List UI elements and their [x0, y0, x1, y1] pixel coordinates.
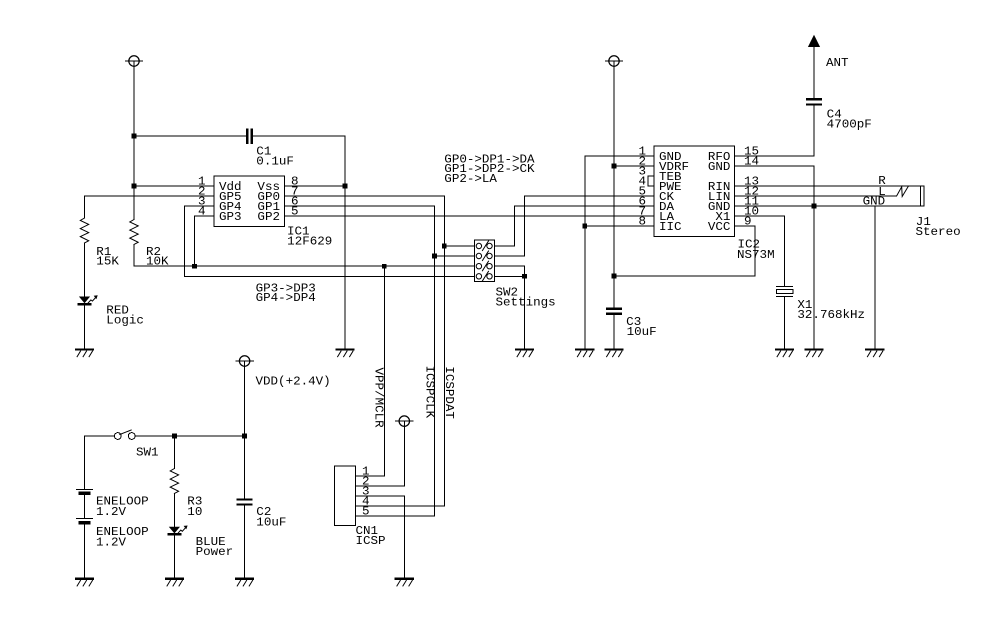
svg-text:VPP/MCLR: VPP/MCLR	[372, 368, 386, 428]
crystal X1	[777, 285, 793, 287]
junction VDD / VCC return	[612, 274, 617, 279]
wire IC2 pin8 IIC	[585, 225, 654, 227]
svg-text:GP3: GP3	[219, 210, 242, 224]
wire CN1 pin5 ICSPCLK	[355, 515, 434, 517]
wire IC2 pin4 PWE stub	[648, 185, 654, 187]
wire SW1 to VDD rail	[135, 435, 245, 437]
switch SW2 contacts	[476, 243, 481, 248]
wire IC1 pin1 Vdd	[134, 185, 214, 187]
power symbol VDD (+2.4V)	[239, 356, 249, 366]
wire IC2 pin12 LIN / L line	[735, 195, 897, 197]
wire jack sleeve to ground	[874, 206, 876, 350]
svg-text:15K: 15K	[96, 255, 119, 269]
LED D2 BLUE	[169, 527, 180, 534]
wire CN1 pin2 to VDD	[355, 421, 404, 486]
resistor R2	[130, 220, 138, 245]
wire GP4 row to SW2	[185, 275, 475, 277]
svg-text:ANT: ANT	[826, 56, 849, 70]
svg-text:GP4->DP4: GP4->DP4	[256, 291, 316, 305]
wire C1 right segment to Vss	[252, 136, 345, 186]
junction VDD / VDRF	[612, 164, 617, 169]
wire R1 top lead	[84, 196, 86, 218]
svg-text:Settings: Settings	[496, 295, 556, 309]
wire VDD down to C2	[244, 361, 246, 499]
op-amp IC1 box (12F629)	[214, 176, 285, 227]
ground (R1/LED chain)	[76, 348, 93, 350]
svg-text:GP2: GP2	[257, 210, 280, 224]
battery BT2 ENELOOP cell2	[77, 518, 93, 520]
svg-text:GND: GND	[708, 160, 731, 174]
svg-text:GP2->LA: GP2->LA	[444, 172, 498, 186]
wire battery cells link	[84, 493, 86, 518]
svg-text:32.768kHz: 32.768kHz	[797, 308, 865, 322]
wire IC1 pin6 GP1 / ICSPCLK	[285, 206, 435, 516]
wire IC2 pin10 X1	[735, 216, 785, 286]
wire IC2 pin3 TEB tie to PWE	[648, 176, 654, 186]
wire CN1 pin1 VPP/MCLR	[355, 266, 384, 476]
wire SW2 row4 right	[495, 275, 525, 277]
wire IC2 pin9 VCC loop	[614, 226, 755, 276]
wire battery to ground	[84, 523, 86, 579]
wire C2 to ground	[244, 505, 246, 579]
junction GP3 row / pin4 drop	[192, 264, 197, 269]
wire SW2 row2 left	[435, 255, 475, 257]
wire R1 to LED	[84, 243, 86, 297]
svg-text:0.1uF: 0.1uF	[256, 154, 294, 168]
wire IC1 pin4 GP3 down	[195, 216, 215, 266]
wire IC2 pin13 RIN / R line	[735, 185, 921, 187]
svg-text:GND: GND	[863, 195, 886, 209]
wire X1 to ground	[784, 296, 786, 349]
wire SW2 row1 left	[444, 245, 474, 247]
antenna ANT	[808, 35, 820, 47]
svg-text:VCC: VCC	[708, 220, 731, 234]
wire CN1 pin4 ICSPDAT	[355, 505, 444, 507]
wire R2 bottom / GP3 row	[134, 245, 474, 267]
wire IC2 pin1 GND left	[585, 156, 654, 350]
junction ICSPDAT / SW2 row1	[442, 244, 447, 249]
svg-text:1.2V: 1.2V	[96, 535, 126, 549]
svg-text:Power: Power	[196, 545, 234, 559]
svg-text:Logic: Logic	[106, 313, 144, 327]
svg-text:SW1: SW1	[136, 446, 159, 460]
wire C3 to ground	[613, 314, 615, 350]
ground (X1)	[776, 348, 793, 350]
ground (C3)	[606, 348, 623, 350]
junction VDD / SW1 rail	[242, 434, 247, 439]
svg-text:10uF: 10uF	[256, 515, 286, 529]
power symbol VDD (top left)	[129, 56, 139, 66]
ground (IC2 GND/IIC)	[576, 348, 593, 350]
junction VDD / C1	[132, 134, 137, 139]
junction SW1 rail / R3	[172, 434, 177, 439]
wire IC1 pin8 Vss	[285, 185, 346, 187]
ground (battery)	[76, 578, 93, 580]
wire VDD rail down to R2	[133, 61, 135, 220]
capacitor C1	[246, 130, 248, 144]
wire IC2 pin11 GND / jack sleeve	[735, 205, 921, 207]
resistor R1	[80, 218, 88, 243]
wire Vss down to ground	[344, 186, 346, 350]
svg-text:12F629: 12F629	[287, 235, 332, 249]
svg-text:10uF: 10uF	[627, 325, 657, 339]
ground (jack sleeve)	[866, 348, 883, 350]
wire IC1 pin2 GP5 to R1	[85, 195, 215, 197]
battery BT1 ENELOOP cell1	[77, 488, 93, 490]
wire CN1 pin3 to ground	[355, 496, 404, 579]
connector J1 plug body	[920, 186, 924, 206]
wire SW2 row2 right to IC2 CK	[495, 196, 654, 256]
ground (C2)	[236, 578, 253, 580]
junction Vss / C1 right	[343, 184, 348, 189]
power symbol VDD (top right)	[609, 56, 619, 66]
svg-text:NS73M: NS73M	[737, 248, 775, 262]
svg-text:1.2V: 1.2V	[96, 505, 126, 519]
junction ICSPCLK / SW2 row2	[432, 254, 437, 259]
ground (LED D2)	[166, 578, 183, 580]
wire C4 to RFO pin15	[735, 104, 815, 156]
connector J1 plug tip zigzag	[897, 186, 909, 196]
wire VDD rail to C3	[613, 61, 615, 309]
switch SW2 box	[474, 240, 494, 281]
junction IIC / GND line	[582, 224, 587, 229]
switch SW1	[114, 433, 121, 440]
wire IC2 pin14 GND to ground	[735, 166, 815, 350]
wire ANT to C4	[813, 44, 815, 99]
resistor R3	[170, 469, 178, 494]
wire R3 to LED	[173, 494, 175, 528]
wire LED D2 to ground	[173, 535, 175, 579]
svg-text:ICSPCLK: ICSPCLK	[422, 366, 436, 419]
power symbol VDD (ICSP)	[399, 416, 409, 426]
junction SW2 row4 / ground drop	[522, 274, 527, 279]
capacitor C3	[607, 308, 621, 310]
junction pin14-gnd / pin11-gnd	[812, 204, 817, 209]
capacitor C4	[807, 98, 821, 100]
svg-text:IIC: IIC	[659, 220, 682, 234]
wire C1 left segment	[134, 135, 247, 137]
svg-text:ICSP: ICSP	[356, 534, 386, 548]
capacitor C2	[238, 498, 252, 500]
wire SW2 row1 right to IC2 DA	[495, 206, 654, 246]
ground (CN1 pin3)	[396, 578, 413, 580]
svg-text:ICSPDAT: ICSPDAT	[442, 366, 456, 419]
junction GP3 row / VPP drop	[382, 264, 387, 269]
wire IC1 pin3 GP4 down	[185, 206, 215, 276]
ground (Vss)	[337, 348, 354, 350]
wire SW2 row3 right to ground	[495, 266, 525, 349]
wire IC2 pin2 VDRF	[614, 165, 654, 167]
svg-text:4700pF: 4700pF	[827, 118, 872, 132]
wire IC1 pin7 GP0 / ICSPDAT	[285, 196, 445, 506]
wire R3 top lead	[173, 436, 175, 469]
svg-text:Stereo: Stereo	[916, 225, 961, 239]
wire IC1 pin5 GP2 to IC2 LA	[285, 215, 655, 217]
svg-text:10: 10	[187, 505, 202, 519]
svg-text:VDD(+2.4V): VDD(+2.4V)	[256, 375, 331, 389]
LED D1 RED	[79, 297, 90, 304]
wire LED D1 to ground	[84, 305, 86, 350]
ground (SW2)	[516, 348, 533, 350]
wire battery to SW1	[85, 436, 115, 489]
connector CN1 box	[335, 466, 356, 526]
junction VDD / IC1 pin 1	[132, 184, 137, 189]
ground (IC2 pin14)	[806, 348, 823, 350]
op-amp IC2 box (NS73M)	[654, 146, 735, 237]
